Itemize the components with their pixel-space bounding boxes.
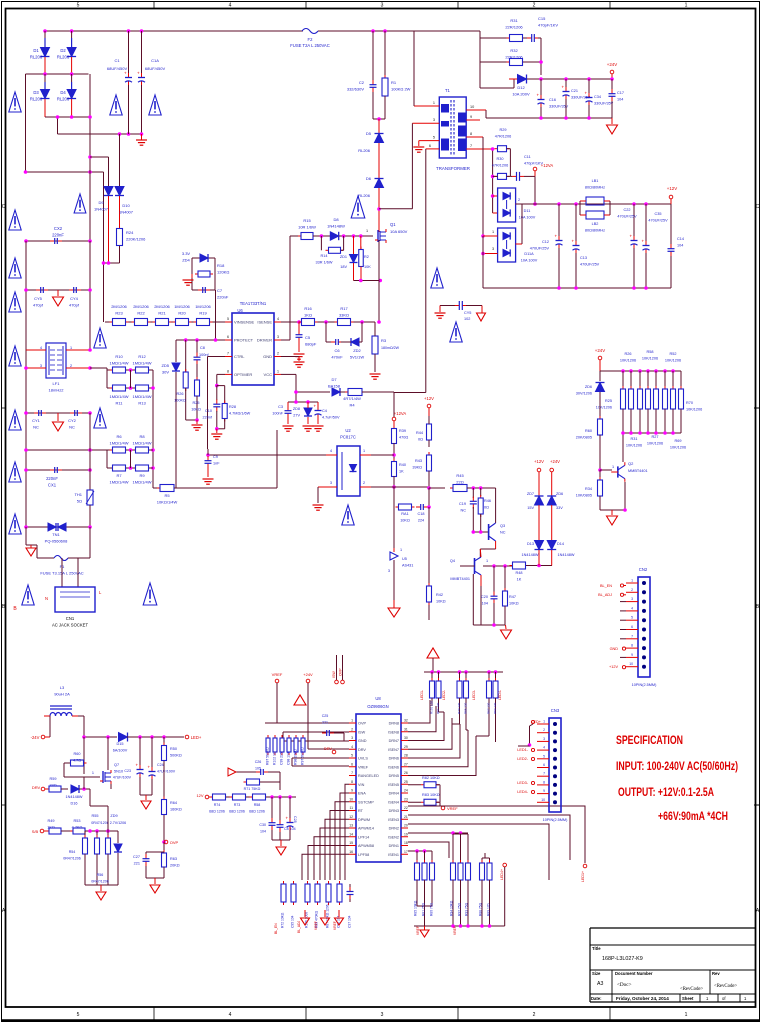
svg-text:26: 26 — [404, 771, 408, 775]
svg-text:33Ω: 33Ω — [49, 784, 56, 788]
svg-text:68UF/450V: 68UF/450V — [107, 66, 128, 71]
svg-text:90uH 2A: 90uH 2A — [54, 692, 70, 697]
svg-text:5Ω: 5Ω — [77, 499, 82, 504]
svg-text:ISEN7: ISEN7 — [388, 748, 399, 752]
svg-text:D10: D10 — [122, 203, 130, 208]
svg-text:27: 27 — [404, 762, 408, 766]
svg-text:4: 4 — [330, 449, 332, 453]
svg-text:DRN3: DRN3 — [389, 809, 399, 813]
svg-text:R49: R49 — [48, 819, 55, 823]
svg-text:10K/1206: 10K/1206 — [665, 359, 681, 363]
svg-text:LED1-: LED1- — [420, 689, 424, 700]
svg-text:4: 4 — [229, 1012, 232, 1018]
svg-text:C23: C23 — [124, 769, 131, 773]
svg-text:29: 29 — [404, 745, 408, 749]
svg-text:C98 104: C98 104 — [287, 752, 291, 765]
svg-text:N: N — [45, 596, 48, 601]
svg-text:RL206: RL206 — [57, 97, 70, 102]
svg-text:R83 10KΩ: R83 10KΩ — [422, 793, 440, 797]
svg-text:68Ω 1206: 68Ω 1206 — [209, 810, 225, 814]
svg-text:10PIN(2.5MM): 10PIN(2.5MM) — [632, 683, 657, 687]
svg-text:470UF/25V: 470UF/25V — [580, 263, 600, 267]
svg-text:R8: R8 — [139, 434, 145, 439]
svg-text:D4: D4 — [60, 90, 66, 95]
svg-text:12: 12 — [349, 815, 353, 819]
svg-text:+: + — [124, 71, 127, 76]
svg-text:+12V: +12V — [609, 665, 618, 669]
svg-text:+: + — [572, 239, 575, 244]
svg-text:2: 2 — [518, 198, 520, 202]
svg-text:3: 3 — [388, 569, 390, 573]
svg-text:5: 5 — [77, 1012, 80, 1018]
svg-text:ISEN6: ISEN6 — [388, 765, 399, 769]
svg-text:R44: R44 — [416, 431, 423, 435]
svg-text:R3: R3 — [381, 338, 387, 343]
svg-text:168P-L3L027-K9: 168P-L3L027-K9 — [602, 956, 643, 962]
svg-text:DRN7: DRN7 — [389, 739, 399, 743]
svg-text:+12V: +12V — [667, 186, 677, 191]
svg-text:ISEN5: ISEN5 — [388, 783, 399, 787]
svg-text:3: 3 — [277, 335, 279, 339]
svg-text:TN1: TN1 — [52, 532, 60, 537]
svg-text:ISENSE: ISENSE — [257, 320, 272, 325]
svg-text:104: 104 — [617, 98, 623, 102]
svg-text:RL206: RL206 — [57, 55, 70, 60]
svg-text:5: 5 — [77, 3, 80, 9]
svg-text:R54: R54 — [69, 850, 76, 854]
svg-text:R69: R69 — [675, 439, 682, 443]
svg-text:20: 20 — [404, 824, 408, 828]
svg-text:ZD1: ZD1 — [340, 255, 347, 259]
svg-text:R12: R12 — [138, 354, 146, 359]
svg-text:Date:: Date: — [591, 996, 601, 1001]
svg-text:OVP: OVP — [358, 722, 366, 726]
svg-text:10K/1206: 10K/1206 — [620, 359, 636, 363]
svg-text:7: 7 — [631, 634, 633, 638]
svg-text:5: 5 — [631, 616, 633, 620]
svg-text:47UF/100V: 47UF/100V — [113, 776, 132, 780]
svg-text:R21: R21 — [158, 311, 166, 316]
svg-text:1N4148W: 1N4148W — [66, 795, 83, 799]
svg-text:10KΩ: 10KΩ — [191, 408, 201, 412]
svg-text:1: 1 — [685, 1012, 688, 1018]
svg-text:33V: 33V — [556, 506, 563, 510]
svg-text:22R/1206: 22R/1206 — [505, 25, 523, 30]
svg-text:9: 9 — [470, 115, 472, 119]
svg-text:R43: R43 — [415, 459, 422, 463]
svg-text:C10: C10 — [205, 409, 212, 413]
svg-text:9: 9 — [543, 789, 545, 793]
svg-text:220nF: 220nF — [46, 476, 58, 481]
svg-text:100KΩ 2W: 100KΩ 2W — [391, 87, 411, 92]
svg-text:OUTPUT: +12V:0.1-2.5A: OUTPUT: +12V:0.1-2.5A — [618, 785, 714, 799]
svg-text:D14: D14 — [557, 542, 564, 546]
svg-text:2: 2 — [363, 481, 365, 485]
svg-text:OVP: OVP — [339, 668, 343, 676]
svg-text:470UF/25V: 470UF/25V — [648, 219, 668, 223]
svg-text:C4: C4 — [322, 409, 327, 413]
svg-text:BL_EN: BL_EN — [274, 923, 278, 934]
svg-text:R60: R60 — [74, 752, 81, 756]
svg-text:MMBT4401: MMBT4401 — [450, 577, 470, 581]
svg-text:ISEN2: ISEN2 — [388, 835, 399, 839]
svg-text:3: 3 — [40, 364, 42, 368]
svg-text:220K/1206: 220K/1206 — [126, 237, 146, 242]
svg-text:RA1: RA1 — [401, 512, 408, 516]
svg-text:4.7Ω: 4.7Ω — [73, 759, 81, 763]
svg-text:A3: A3 — [597, 981, 603, 987]
svg-text:2: 2 — [277, 352, 279, 356]
svg-text:C19: C19 — [459, 502, 466, 506]
svg-text:10: 10 — [541, 798, 545, 802]
svg-text:10A 200V: 10A 200V — [512, 92, 530, 97]
svg-text:D2: D2 — [60, 48, 66, 53]
svg-text:10PIN(2.5MM): 10PIN(2.5MM) — [543, 818, 568, 822]
svg-text:16: 16 — [349, 850, 353, 854]
svg-text:1MΩ/1/4W: 1MΩ/1/4W — [110, 441, 129, 446]
svg-text:DRN5: DRN5 — [389, 774, 399, 778]
svg-text:D5: D5 — [366, 131, 372, 136]
svg-text:R53: R53 — [74, 819, 81, 823]
svg-text:R42: R42 — [436, 593, 443, 597]
svg-text:470pf: 470pf — [69, 303, 80, 308]
svg-text:C3: C3 — [278, 405, 283, 409]
svg-text:S/B: S/B — [32, 829, 39, 834]
svg-text:+24V: +24V — [550, 459, 560, 464]
svg-text:F2: F2 — [308, 37, 314, 42]
svg-text:D15: D15 — [117, 742, 124, 746]
svg-text:R4: R4 — [349, 403, 355, 408]
svg-text:NC: NC — [33, 425, 39, 430]
svg-text:C26: C26 — [255, 760, 262, 764]
svg-text:LED4-: LED4- — [498, 689, 502, 700]
svg-text:R11: R11 — [115, 401, 123, 406]
svg-text:10K: 10K — [364, 265, 371, 269]
svg-text:D6: D6 — [366, 176, 372, 181]
svg-text:R92 75Ω: R92 75Ω — [458, 902, 462, 916]
svg-text:AC JACK SOCKET: AC JACK SOCKET — [52, 623, 89, 628]
svg-text:3: 3 — [631, 597, 633, 601]
svg-text:LPF58: LPF58 — [358, 853, 369, 857]
svg-text:R30: R30 — [497, 157, 504, 161]
svg-text:T1: T1 — [445, 88, 451, 93]
svg-text:R93 75Ω: R93 75Ω — [465, 902, 469, 916]
svg-text:ISEN3: ISEN3 — [388, 818, 399, 822]
svg-text:GND: GND — [263, 354, 272, 359]
svg-text:1MΩ/1/4W: 1MΩ/1/4W — [133, 480, 152, 485]
svg-text:0Ω: 0Ω — [418, 438, 423, 442]
svg-text:10A 100V: 10A 100V — [519, 216, 536, 220]
svg-text:102: 102 — [464, 317, 470, 321]
svg-text:R79 120: R79 120 — [457, 702, 461, 714]
svg-text:10K/1206: 10K/1206 — [626, 444, 642, 448]
svg-text:C11: C11 — [524, 155, 531, 159]
svg-text:11: 11 — [349, 806, 353, 810]
svg-text:68Ω 1206: 68Ω 1206 — [249, 810, 265, 814]
svg-text:ZD4: ZD4 — [182, 258, 190, 263]
svg-text:C18: C18 — [418, 512, 425, 516]
svg-text:-24V: -24V — [31, 735, 40, 740]
svg-text:10R 1/6W: 10R 1/6W — [298, 225, 316, 230]
svg-text:+: + — [537, 93, 540, 98]
svg-text:Friday, October 24, 2014: Friday, October 24, 2014 — [616, 996, 669, 1001]
svg-text:+66V:90mA *4CH: +66V:90mA *4CH — [658, 809, 728, 823]
svg-text:R89 120: R89 120 — [493, 702, 497, 714]
svg-text:680pF: 680pF — [305, 342, 317, 347]
svg-text:C2: C2 — [359, 80, 365, 85]
svg-text:32: 32 — [404, 719, 408, 723]
svg-text:220nF: 220nF — [217, 295, 229, 300]
svg-text:L3: L3 — [60, 685, 65, 690]
svg-text:R85 120: R85 120 — [464, 702, 468, 714]
svg-text:DRN6: DRN6 — [389, 757, 399, 761]
svg-text:RL206: RL206 — [358, 148, 371, 153]
svg-text:15V: 15V — [527, 506, 534, 510]
svg-text:TEA1733T/N1: TEA1733T/N1 — [240, 301, 267, 306]
svg-text:ZD6: ZD6 — [585, 385, 592, 389]
svg-text:1M/1206: 1M/1206 — [174, 304, 190, 309]
svg-text:R59: R59 — [50, 777, 57, 781]
svg-text:R64: R64 — [170, 801, 177, 805]
svg-text:CY5: CY5 — [464, 311, 471, 315]
svg-text:R29: R29 — [500, 128, 507, 132]
svg-text:7: 7 — [227, 352, 229, 356]
svg-text:R56: R56 — [97, 873, 104, 877]
svg-text:CY5: CY5 — [34, 296, 43, 301]
svg-text:+: + — [314, 404, 317, 409]
svg-text:2: 2 — [631, 588, 633, 592]
svg-text:1M/1206: 1M/1206 — [195, 304, 211, 309]
svg-text:7: 7 — [351, 771, 353, 775]
svg-text:C21: C21 — [571, 89, 578, 93]
svg-text:D1: D1 — [33, 48, 39, 53]
svg-text:R63: R63 — [170, 857, 177, 861]
svg-text:DRIVER: DRIVER — [257, 338, 272, 343]
svg-text:R32: R32 — [510, 48, 518, 53]
svg-text:DRV: DRV — [32, 785, 41, 790]
svg-text:C37 104: C37 104 — [348, 915, 352, 928]
svg-text:LED2-: LED2- — [442, 689, 446, 700]
svg-text:0R47/1206: 0R47/1206 — [91, 880, 109, 884]
svg-text:ISEN8: ISEN8 — [388, 730, 399, 734]
svg-text:CY2: CY2 — [68, 418, 77, 423]
svg-text:R81 75Ω: R81 75Ω — [422, 902, 426, 916]
svg-text:R10: R10 — [115, 354, 123, 359]
svg-text:6: 6 — [429, 144, 431, 148]
svg-text:4.7uF/50V: 4.7uF/50V — [322, 416, 340, 420]
svg-text:DRV: DRV — [358, 748, 366, 752]
svg-text:R20: R20 — [178, 311, 186, 316]
svg-text:R58: R58 — [254, 803, 261, 807]
svg-text:ZD5: ZD5 — [161, 363, 169, 368]
svg-text:24: 24 — [404, 789, 408, 793]
svg-text:R16: R16 — [304, 306, 312, 311]
svg-text:1: 1 — [543, 720, 545, 724]
svg-text:C6: C6 — [334, 348, 340, 353]
svg-text:10: 10 — [349, 797, 353, 801]
svg-text:INPUT: 100-240V AC(50/60Hz): INPUT: 100-240V AC(50/60Hz) — [616, 759, 738, 773]
svg-text:1MΩ/1/4W: 1MΩ/1/4W — [133, 361, 152, 366]
svg-text:LED+: LED+ — [191, 735, 202, 740]
svg-text:R82 10KΩ: R82 10KΩ — [422, 776, 440, 780]
svg-text:R15: R15 — [303, 218, 311, 223]
svg-text:180mΩ/2W: 180mΩ/2W — [381, 346, 400, 350]
svg-text:R26: R26 — [177, 392, 184, 396]
svg-text:LED4+: LED4+ — [500, 869, 504, 880]
svg-text:PC817C: PC817C — [340, 435, 356, 440]
svg-text:5: 5 — [351, 754, 353, 758]
svg-text:1MΩ/1/4W: 1MΩ/1/4W — [133, 441, 152, 446]
svg-text:3: 3 — [381, 1012, 384, 1018]
svg-text:CY4: CY4 — [70, 296, 79, 301]
svg-text:39KΩ: 39KΩ — [412, 466, 422, 470]
svg-text:0R47/1206: 0R47/1206 — [91, 821, 109, 825]
svg-text:3.3V: 3.3V — [182, 251, 191, 256]
svg-text:PROTECT: PROTECT — [234, 338, 254, 343]
svg-text:R50: R50 — [170, 747, 177, 751]
svg-text:+12VA: +12VA — [541, 163, 554, 168]
svg-text:33R 1/6W: 33R 1/6W — [316, 261, 333, 265]
svg-text:6A/100V: 6A/100V — [113, 749, 128, 753]
svg-text:C24: C24 — [157, 763, 164, 767]
svg-text:C17: C17 — [617, 91, 624, 95]
svg-text:C9: C9 — [213, 455, 218, 459]
svg-text:LF1: LF1 — [53, 381, 61, 386]
svg-text:OVP: OVP — [170, 840, 179, 845]
svg-text:R45: R45 — [456, 473, 464, 478]
svg-text:+12V: +12V — [534, 459, 544, 464]
svg-text:8: 8 — [631, 644, 633, 648]
svg-text:BL_ADJ: BL_ADJ — [598, 593, 612, 597]
svg-text:5: 5 — [543, 754, 545, 758]
svg-text:5: 5 — [433, 136, 435, 140]
svg-text:27V: 27V — [293, 414, 300, 418]
svg-text:CY1: CY1 — [32, 418, 41, 423]
svg-text:3: 3 — [543, 737, 545, 741]
svg-text:1: 1 — [363, 449, 365, 453]
svg-text:<RevCode>: <RevCode> — [714, 984, 738, 989]
svg-text:R39: R39 — [399, 429, 406, 433]
svg-text:R13: R13 — [138, 401, 146, 406]
svg-text:D16: D16 — [71, 802, 78, 806]
svg-text:1: 1 — [492, 230, 494, 234]
svg-text:R6: R6 — [116, 434, 122, 439]
svg-text:RL206: RL206 — [30, 97, 43, 102]
svg-text:R55: R55 — [92, 814, 99, 818]
svg-text:VREF: VREF — [453, 926, 457, 935]
svg-text:2.7V/1206: 2.7V/1206 — [110, 821, 126, 825]
svg-text:R60: R60 — [585, 429, 592, 433]
svg-text:1K: 1K — [517, 578, 522, 582]
svg-text:C7: C7 — [217, 288, 223, 293]
svg-text:80Ω/80MHz: 80Ω/80MHz — [585, 186, 605, 190]
svg-text:CN3: CN3 — [551, 708, 560, 713]
svg-text:+: + — [137, 71, 140, 76]
svg-text:R72 10ΚΩ: R72 10ΚΩ — [281, 912, 285, 928]
svg-text:R52: R52 — [670, 352, 677, 356]
svg-text:R31: R31 — [631, 437, 638, 441]
svg-text:R87 120: R87 120 — [487, 702, 491, 714]
svg-text:R102 0Ω: R102 0Ω — [273, 751, 277, 765]
svg-text:+: + — [136, 763, 139, 768]
svg-text:C13: C13 — [580, 256, 587, 260]
svg-text:OPTIMER: OPTIMER — [234, 372, 252, 377]
svg-text:330UF/35V: 330UF/35V — [594, 102, 614, 106]
svg-text:ISEN4: ISEN4 — [388, 800, 399, 804]
svg-text:Title: Title — [592, 946, 601, 951]
svg-text:+: + — [286, 816, 289, 821]
svg-text:RANGELED: RANGELED — [358, 774, 379, 778]
svg-text:DRN8: DRN8 — [389, 722, 399, 726]
svg-text:30V: 30V — [162, 370, 169, 375]
svg-text:C: C — [2, 204, 6, 210]
svg-text:470pF/1KV: 470pF/1KV — [538, 23, 558, 28]
svg-text:R80 75Ω: R80 75Ω — [430, 902, 434, 916]
svg-text:4R7/1/4W: 4R7/1/4W — [343, 396, 361, 401]
svg-text:R89 120: R89 120 — [487, 903, 491, 916]
svg-text:R47: R47 — [509, 595, 516, 599]
svg-text:1MΩ/1/4W: 1MΩ/1/4W — [110, 480, 129, 485]
svg-text:5N10: 5N10 — [114, 770, 123, 774]
svg-text:500KΩ: 500KΩ — [170, 754, 182, 758]
svg-text:BL_EN: BL_EN — [600, 584, 612, 588]
svg-text:LED2-: LED2- — [517, 757, 528, 761]
svg-text:1: 1 — [486, 559, 488, 563]
svg-text:6: 6 — [351, 762, 353, 766]
svg-text:+12VA: +12VA — [394, 411, 407, 416]
svg-text:1: 1 — [433, 101, 435, 105]
svg-text:1N4007: 1N4007 — [119, 210, 134, 215]
svg-text:68Ω 1206: 68Ω 1206 — [229, 810, 245, 814]
svg-text:GND: GND — [610, 647, 619, 651]
svg-text:5V1/1W: 5V1/1W — [350, 355, 364, 360]
svg-text:Q7: Q7 — [114, 763, 119, 767]
svg-text:C12: C12 — [542, 240, 549, 244]
svg-text:28: 28 — [404, 754, 408, 758]
svg-text:1KΩ: 1KΩ — [304, 313, 312, 318]
svg-text:332/630V: 332/630V — [347, 87, 364, 92]
svg-text:R87 560KΩ: R87 560KΩ — [266, 747, 270, 765]
svg-text:+: + — [562, 85, 565, 90]
svg-text:10KΩ: 10KΩ — [436, 600, 446, 604]
svg-text:1: 1 — [70, 346, 72, 350]
svg-text:10KΩ/1/4W: 10KΩ/1/4W — [157, 500, 178, 505]
svg-text:C: C — [756, 204, 760, 210]
svg-text:VCC: VCC — [264, 372, 273, 377]
svg-text:C1: C1 — [114, 58, 120, 63]
svg-text:4: 4 — [351, 745, 353, 749]
svg-text:80Ω/80MHz: 80Ω/80MHz — [585, 229, 605, 233]
svg-text:1KΩ: 1KΩ — [47, 826, 55, 830]
svg-text:21: 21 — [404, 815, 408, 819]
svg-text:R7: R7 — [116, 473, 122, 478]
svg-text:R98 27KΩ: R98 27KΩ — [294, 749, 298, 765]
svg-text:6: 6 — [543, 763, 545, 767]
svg-text:DRN4: DRN4 — [389, 792, 399, 796]
svg-text:R25: R25 — [193, 401, 200, 405]
svg-text:NC: NC — [461, 509, 467, 513]
svg-text:220nf: 220nf — [202, 416, 212, 420]
svg-text:R58: R58 — [647, 350, 654, 354]
svg-text:23: 23 — [404, 797, 408, 801]
svg-text:FUSE T2A L 250VAC: FUSE T2A L 250VAC — [290, 43, 330, 48]
svg-text:1: 1 — [366, 229, 368, 233]
svg-text:30: 30 — [404, 736, 408, 740]
svg-text:C5: C5 — [305, 335, 311, 340]
svg-text:AS431: AS431 — [402, 564, 413, 568]
svg-text:LED1+: LED1+ — [581, 871, 585, 882]
svg-text:ZD8: ZD8 — [293, 407, 300, 411]
